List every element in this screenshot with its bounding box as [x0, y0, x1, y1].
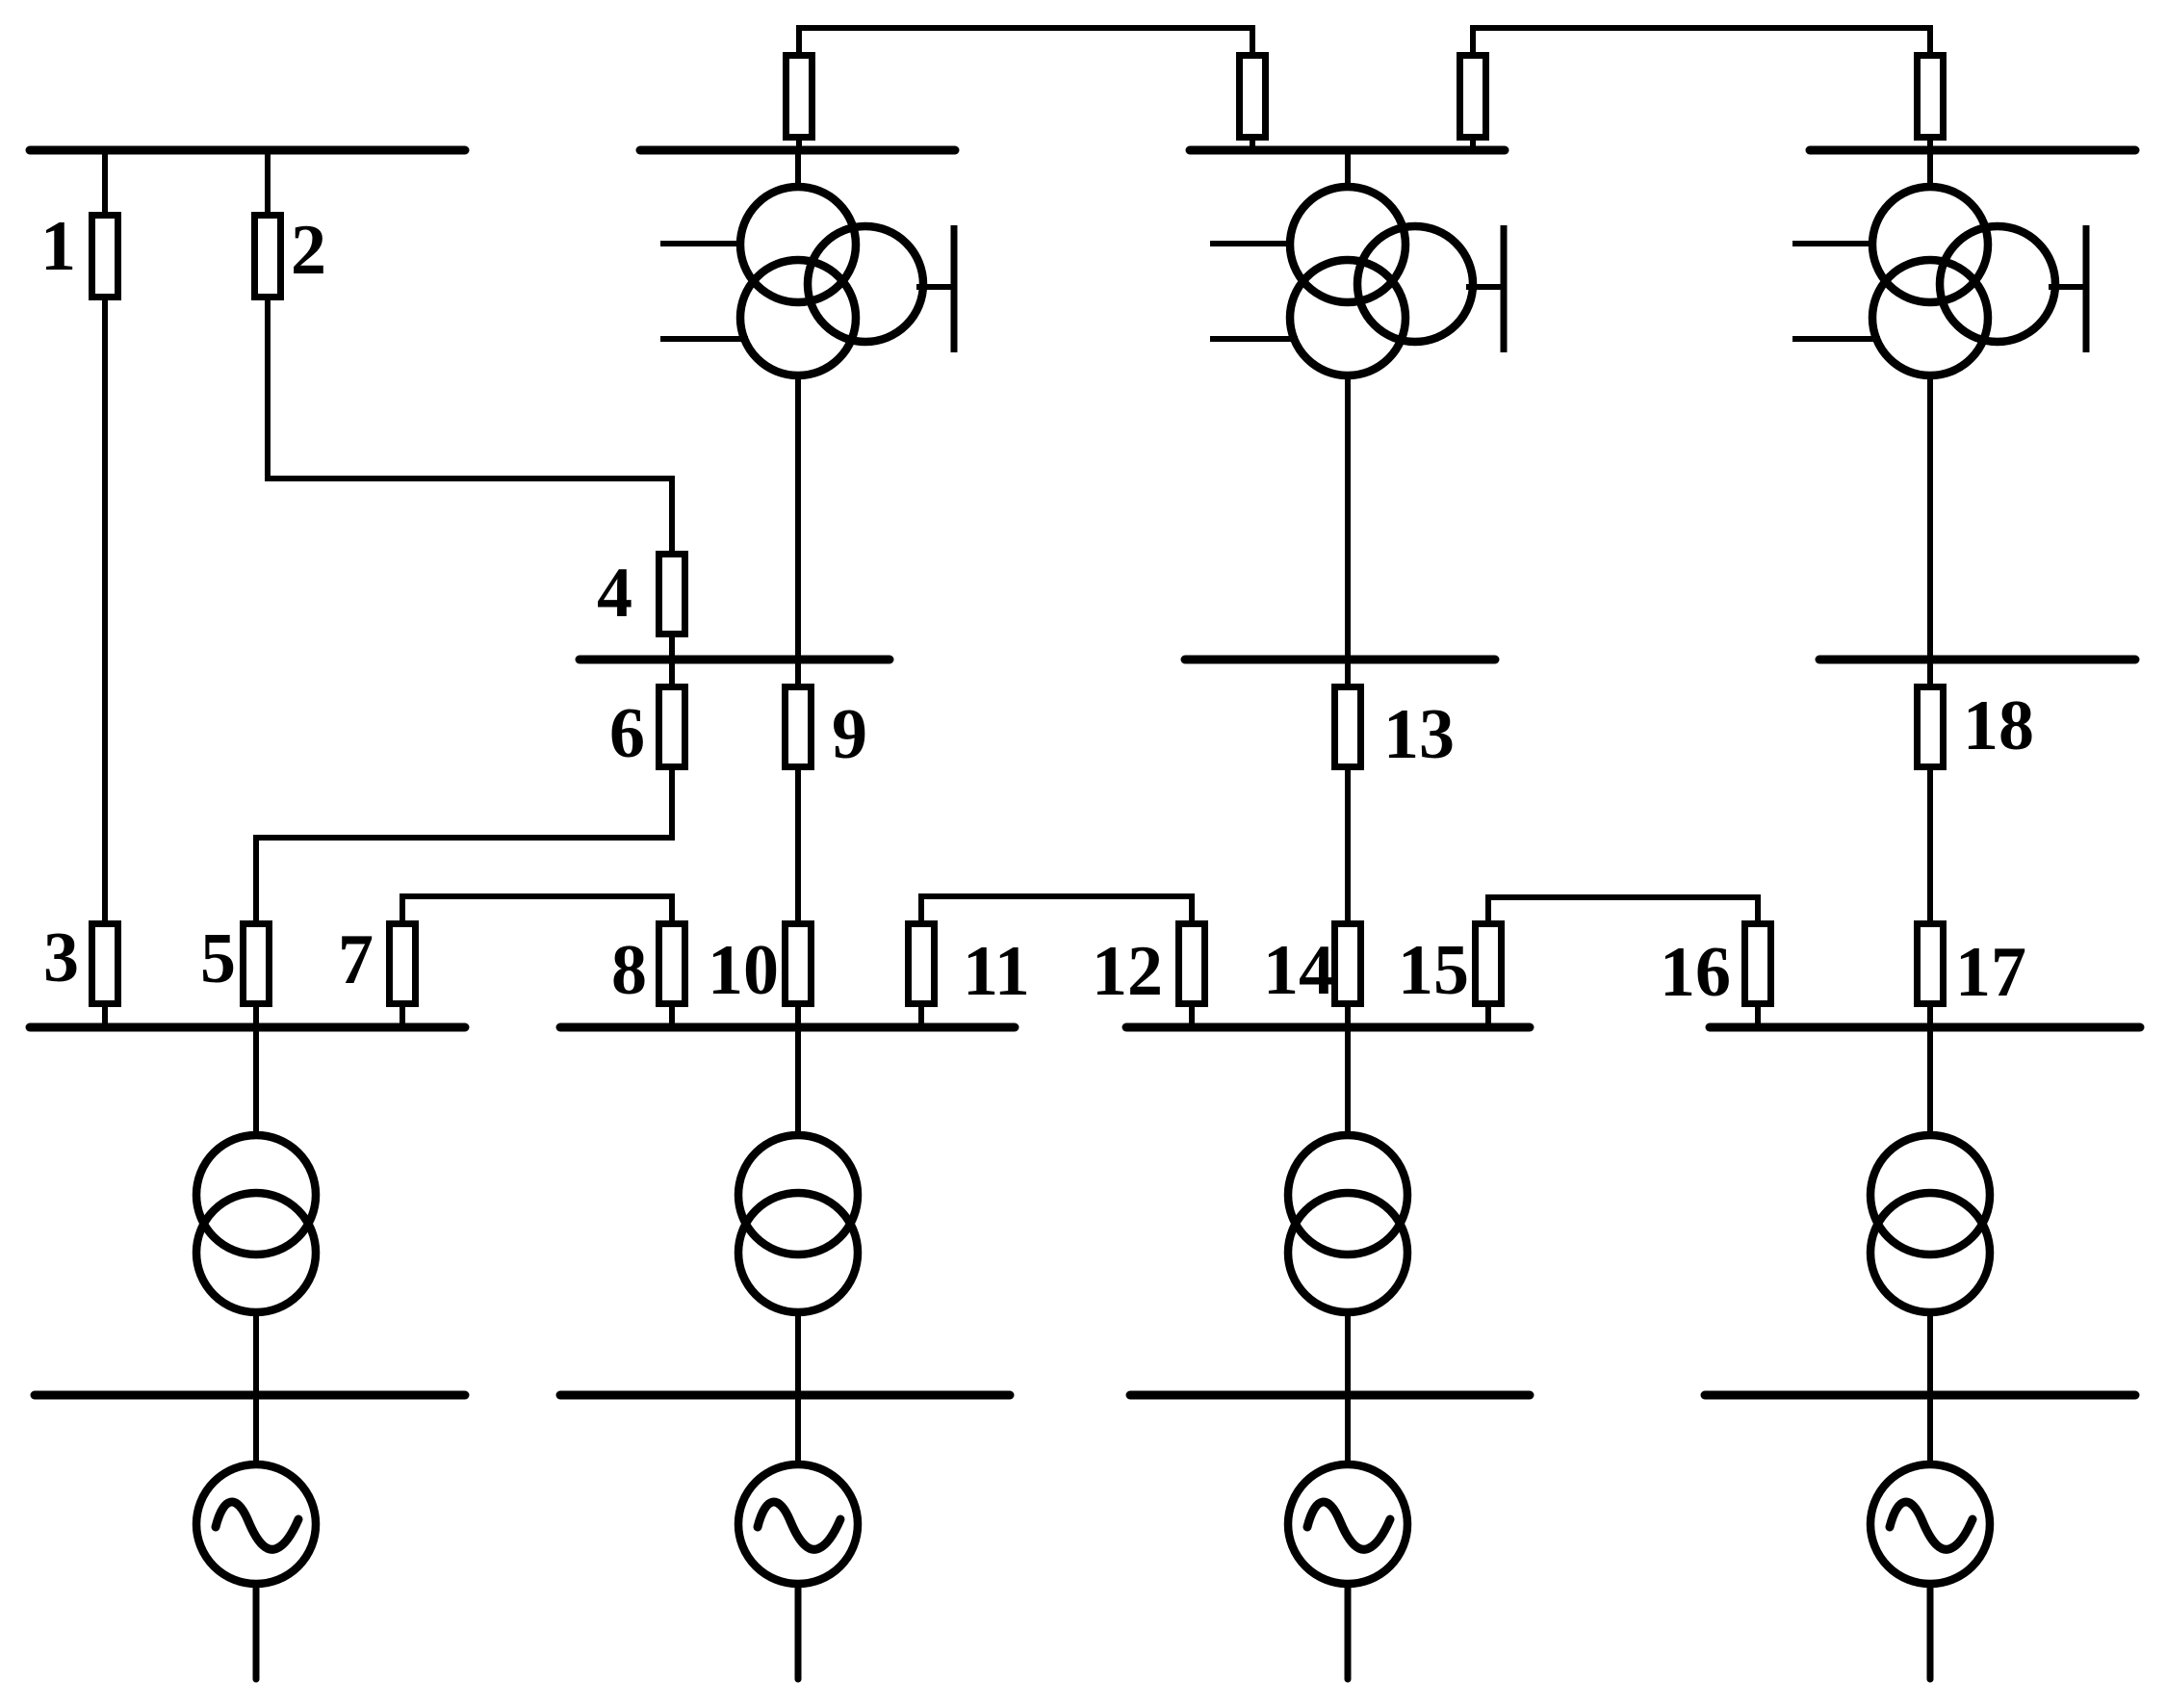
svg-text:16: 16: [1660, 933, 1731, 1012]
wire: transformer T4 to middle bus: [1927, 375, 1933, 660]
circuit breaker 4: [659, 555, 685, 634]
svg-text:12: 12: [1092, 932, 1163, 1011]
right terminal of T4: [2049, 284, 2083, 290]
busbar: generator bus 2: [560, 1391, 1010, 1400]
circuit breaker tie-B (bus3 end): [1460, 56, 1486, 138]
circuit breaker 2: [255, 216, 281, 298]
busbar: lower bus 3: [1126, 1023, 1530, 1032]
busbar: lower bus 1: [30, 1023, 465, 1032]
two-winding transformer T4L: [1870, 1135, 1990, 1255]
wire: breaker 15 to breaker 16 jog: [1488, 897, 1758, 1027]
busbar: top bus 3: [1190, 146, 1505, 155]
circuit breaker tie-B (bus4 end): [1918, 56, 1944, 138]
generator G1: [196, 1464, 316, 1584]
circuit breaker tie-A (bus3 end): [1240, 56, 1266, 138]
svg-text:18: 18: [1963, 686, 2034, 765]
circuit breaker 12: [1179, 924, 1205, 1004]
wire: column breakers 13-14: [1345, 660, 1351, 1027]
wire: column breakers 18-17: [1927, 660, 1933, 1027]
svg-text:3: 3: [43, 919, 79, 997]
three-winding transformer T2: [740, 187, 856, 302]
svg-text:2: 2: [291, 211, 326, 290]
three-winding transformer T4: [1872, 187, 1988, 302]
left terminal stubs of T4: [1792, 241, 1874, 246]
busbar: middle bus 2: [580, 656, 890, 664]
circuit breaker 17: [1918, 924, 1944, 1004]
svg-text:14: 14: [1263, 931, 1334, 1010]
wire: breaker 11 to breaker 12 jog: [921, 896, 1192, 1027]
svg-text:17: 17: [1955, 933, 2026, 1012]
svg-text:6: 6: [609, 694, 645, 773]
circuit breaker 13: [1335, 687, 1361, 767]
circuit breaker 11: [909, 924, 935, 1004]
busbar: top bus 2: [640, 146, 955, 155]
two-winding transformer T3L: [1288, 1135, 1407, 1255]
wire: generator bus to generator G4: [1927, 1395, 1933, 1466]
wire: lower bus to transformer T4L: [1927, 1027, 1933, 1137]
wire: bus to transformer T3: [1345, 150, 1351, 189]
circuit breaker 18: [1918, 687, 1944, 767]
wire: tie breaker leads: [796, 141, 802, 150]
svg-text:8: 8: [611, 931, 647, 1010]
circuit breaker 8: [659, 924, 685, 1004]
circuit breaker 5: [244, 924, 270, 1004]
wire: breaker 7 to breaker 8 jog: [402, 896, 672, 1027]
circuit breaker 9: [786, 687, 812, 767]
svg-text:5: 5: [200, 919, 236, 998]
wire: generator bus to generator G3: [1345, 1395, 1351, 1466]
wire: lower bus to transformer T3L: [1345, 1027, 1351, 1137]
wire: tie line bus3-bus4: [1473, 28, 1930, 52]
busbar: generator bus 1: [35, 1391, 465, 1400]
svg-text:10: 10: [708, 931, 779, 1010]
wire: transformer T1L to generator bus: [253, 1310, 259, 1395]
generator G3: [1288, 1464, 1407, 1584]
circuit breaker 6: [659, 687, 685, 767]
wire: transformer T2L to generator bus: [795, 1310, 801, 1395]
svg-text:4: 4: [597, 554, 632, 633]
right terminal of T2: [916, 284, 951, 290]
busbar: generator bus 4: [1705, 1391, 2135, 1400]
wire: column breakers 9-10: [795, 660, 801, 1027]
busbar: middle bus 4: [1819, 656, 2135, 664]
circuit breaker tie-A (bus2 end): [786, 56, 812, 138]
circuit breaker 16: [1745, 924, 1771, 1004]
generator G4: [1870, 1464, 1990, 1584]
wire: bus to transformer T4: [1927, 150, 1933, 189]
wire: tie line bus2-bus3: [799, 28, 1252, 52]
two-winding transformer T2L: [738, 1135, 858, 1255]
left terminal stubs of T3: [1210, 241, 1292, 246]
svg-text:15: 15: [1398, 931, 1469, 1010]
busbar: top bus 1: [30, 146, 465, 155]
circuit breaker 1: [92, 216, 118, 298]
three-winding transformer T3: [1290, 187, 1405, 302]
busbar: lower bus 4: [1710, 1023, 2140, 1032]
left terminal stubs of T2: [660, 241, 742, 246]
svg-text:9: 9: [832, 695, 867, 774]
busbar: middle bus 3: [1185, 656, 1495, 664]
wire: transformer T3L to generator bus: [1345, 1310, 1351, 1395]
wire: generator bus to generator G1: [253, 1395, 259, 1466]
busbar: top bus 4: [1810, 146, 2135, 155]
circuit breaker 7: [390, 924, 416, 1004]
wire: transformer T3 to middle bus: [1345, 375, 1351, 660]
svg-text:7: 7: [338, 920, 374, 999]
wire: generator G3 lead stub: [1345, 1584, 1352, 1679]
generator G2: [738, 1464, 858, 1584]
busbar: generator bus 3: [1130, 1391, 1530, 1400]
wire: transformer T4L to generator bus: [1927, 1310, 1933, 1395]
wire: lower bus to transformer T2L: [795, 1027, 801, 1137]
wire: generator bus to generator G2: [795, 1395, 801, 1466]
wire: lower bus to transformer T1L: [253, 1027, 259, 1137]
svg-text:1: 1: [40, 207, 76, 286]
right terminal of T3: [1466, 284, 1501, 290]
wire: generator G1 lead stub: [253, 1584, 260, 1679]
wire: breaker 2 to breaker 4 jog: [268, 150, 672, 660]
wire: transformer T2 to middle bus: [795, 375, 801, 660]
svg-text:13: 13: [1383, 695, 1455, 774]
busbar: lower bus 2: [560, 1023, 1015, 1032]
wire: generator G2 lead stub: [795, 1584, 802, 1679]
circuit breaker 3: [92, 924, 118, 1004]
svg-text:11: 11: [963, 932, 1030, 1011]
wire: bus to transformer T2: [795, 150, 801, 189]
circuit breaker 14: [1335, 924, 1361, 1004]
circuit breaker 10: [786, 924, 812, 1004]
two-winding transformer T1L: [196, 1135, 316, 1255]
wire: generator G4 lead stub: [1927, 1584, 1934, 1679]
wire: column breakers 1-3: [102, 150, 108, 1027]
circuit breaker 15: [1476, 924, 1502, 1004]
wire: breaker 6 to breaker 5 jog: [256, 660, 672, 1027]
